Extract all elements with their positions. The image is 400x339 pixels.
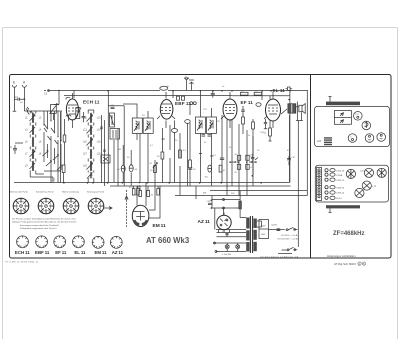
chassis box bottom xyxy=(315,165,388,202)
svg-text:Änderungen vorbehalten: Änderungen vorbehalten xyxy=(327,254,356,258)
trimmer G xyxy=(360,168,374,177)
switch wiper arrows xyxy=(43,151,63,171)
socket EBF11 xyxy=(36,236,48,248)
svg-text:Gl 110/125V ~= 2x A: Gl 110/125V ~= 2x A xyxy=(278,237,299,240)
resistor 47 xyxy=(219,165,226,172)
wire to tuning cap xyxy=(54,91,60,105)
resistor ECH11 cathode xyxy=(58,165,65,183)
resistor EF anode xyxy=(242,114,245,134)
adjuster row 3 xyxy=(325,178,345,182)
wire osc column links xyxy=(88,110,94,183)
wire ground rail xyxy=(14,115,308,196)
svg-text:C34/L16: C34/L16 xyxy=(336,187,345,189)
dial lamp 1 xyxy=(225,243,229,252)
trimmer I xyxy=(362,181,377,190)
wire tick xyxy=(162,138,165,140)
speaker xyxy=(296,104,305,114)
svg-text:C31/L18: C31/L18 xyxy=(336,170,345,172)
IF transformer 1a xyxy=(132,118,142,133)
capacitor 100 xyxy=(111,105,115,109)
scattered value labels xyxy=(118,86,291,159)
wire filament bus xyxy=(214,230,247,252)
svg-text:1n: 1n xyxy=(248,135,250,137)
antenna coil unit 5 xyxy=(25,161,35,172)
resistor pair under rail xyxy=(129,186,139,195)
switch mains xyxy=(286,227,298,230)
switch contacts on bus xyxy=(27,111,61,140)
capacitor Zu xyxy=(286,87,293,90)
band switch wafer contacts xyxy=(44,124,61,183)
svg-text:Fz 0,5M 11 47/93 5054 11: Fz 0,5M 11 47/93 5054 11 xyxy=(6,261,39,263)
capacitor electrolytic 40b xyxy=(205,165,212,178)
socket AZ11 xyxy=(110,236,122,248)
resistor chain right lower xyxy=(246,164,254,169)
resistor EL grid xyxy=(252,119,255,137)
fuse oval xyxy=(160,86,168,90)
potentiometer wiper xyxy=(150,162,158,168)
svg-text:10 10: 10 10 xyxy=(129,187,135,189)
wire EBF drops xyxy=(170,103,190,196)
wire vertical feeds xyxy=(108,91,124,187)
wire mains xyxy=(257,221,262,227)
terminal block voltage selector xyxy=(259,220,269,239)
wire B+ secondary rail xyxy=(232,95,290,97)
junction xyxy=(58,90,60,92)
wire IF1 links xyxy=(123,104,148,183)
capacitor electrolytic 0,4 xyxy=(129,165,138,172)
resistor chain left upper xyxy=(235,154,241,161)
diode plates EBF11 xyxy=(190,102,193,105)
socket diagram 4 xyxy=(88,198,104,214)
svg-text:ECH 11: ECH 11 xyxy=(83,99,100,104)
wire transformer top xyxy=(240,217,246,219)
svg-text:C33/L12: C33/L12 xyxy=(336,180,345,182)
wire HT rail xyxy=(196,186,240,230)
capacitor at ECH11 xyxy=(66,112,86,122)
resistor decoupling b xyxy=(254,91,262,96)
dial scale bar top xyxy=(326,97,360,106)
wire coil column links xyxy=(30,111,36,177)
svg-text:AT Rgt Sch 660/3: AT Rgt Sch 660/3 xyxy=(334,262,356,266)
trimmer H xyxy=(377,168,386,177)
antenna coil unit 2 xyxy=(25,125,42,136)
node A xyxy=(22,81,26,111)
svg-text:EF 11: EF 11 xyxy=(241,100,254,105)
wire T bars xyxy=(199,154,213,157)
svg-text:Kontakt blau Punkt: Kontakt blau Punkt xyxy=(36,191,54,194)
resistor bleeder xyxy=(239,191,242,218)
adjuster row 5 xyxy=(325,191,345,195)
adjuster row 2 xyxy=(325,173,343,177)
node C3 terminal xyxy=(44,90,49,96)
svg-text:C35/L14: C35/L14 xyxy=(336,193,345,195)
antenna coil unit 3 xyxy=(25,137,42,148)
junction dots on rail xyxy=(107,90,291,92)
resistor at ECH11 grid xyxy=(61,112,66,183)
band indicator box xyxy=(334,111,351,125)
contact dots xyxy=(43,120,61,141)
wire top rail xyxy=(48,90,308,92)
adjuster row 4 xyxy=(325,186,345,190)
svg-text:1M: 1M xyxy=(118,149,121,151)
resistor EL cathode 50 xyxy=(264,128,272,141)
coil L23 block xyxy=(317,137,332,145)
terminal strip xyxy=(317,168,322,201)
junction dot cluster xyxy=(200,90,223,92)
trimmer J xyxy=(355,188,364,197)
oscillator coil unit 6 xyxy=(87,172,93,179)
tube EL11 xyxy=(264,92,281,128)
coil unit 2 xyxy=(110,129,120,140)
svg-text:farbigen Punkt gekennzeichnete: farbigen Punkt gekennzeichneten Anschlüs… xyxy=(12,221,77,224)
power transformer xyxy=(246,216,257,253)
capacitor electrolytic 40 xyxy=(117,165,125,172)
wire drops to rail xyxy=(123,145,155,191)
wire B+ right edge xyxy=(306,91,308,196)
dial lamp 2 xyxy=(236,243,240,252)
capacitor tone xyxy=(287,156,296,165)
svg-text:EBF 11: EBF 11 xyxy=(35,250,50,255)
resistor EBF screen xyxy=(157,128,164,183)
svg-text:L 2x0,2A: L 2x0,2A xyxy=(222,253,231,256)
trimmer d xyxy=(365,134,374,143)
wire band switch bus xyxy=(24,107,62,111)
svg-text:S/L10: S/L10 xyxy=(336,198,342,200)
svg-text:C15: C15 xyxy=(51,180,56,182)
capacitor coupling EF-EL xyxy=(241,106,245,115)
panel divider xyxy=(310,75,312,259)
svg-text:AZ 11: AZ 11 xyxy=(112,250,124,255)
wire screen feed xyxy=(64,94,232,96)
svg-text:C32/A: C32/A xyxy=(336,174,343,177)
capacitor screen b xyxy=(182,96,185,100)
capacitor screen a xyxy=(177,96,180,100)
resistor chain left lower xyxy=(235,164,241,174)
adjuster row 6 xyxy=(325,196,343,200)
output transformer xyxy=(288,91,296,183)
socket EF11 xyxy=(54,236,66,248)
capacitor 50 xyxy=(9,143,23,154)
paragraph text xyxy=(12,218,77,231)
socket diagram 1 xyxy=(13,198,29,214)
IF transformer 2b xyxy=(206,117,216,133)
oscillator coil unit 2 xyxy=(83,125,101,136)
oscillator coil unit 4 xyxy=(83,149,101,160)
resistor chain right upper xyxy=(246,155,254,160)
trimmer c xyxy=(348,134,357,143)
svg-text:kleinste oder Punkt: kleinste oder Punkt xyxy=(10,191,28,194)
tuning capacitor C4 xyxy=(50,103,59,120)
capacitor 50u xyxy=(188,168,196,171)
node E xyxy=(12,81,16,112)
socket labels xyxy=(15,250,124,255)
wire detector to EM xyxy=(139,134,141,183)
node anode terminals xyxy=(223,199,225,201)
wire EF drops xyxy=(222,115,253,196)
svg-text:Die Punkte auf dem Sockelbild: Die Punkte auf dem Sockelbild sind die M… xyxy=(12,218,77,221)
capacitor right tap xyxy=(246,161,257,163)
socket diagram 3 xyxy=(63,198,79,214)
svg-text:Fassungen entsprechend der Pun: Fassungen entsprechend der Punktzahl xyxy=(20,224,59,227)
svg-text:Stützpunkte angeordnet sind. K: Stützpunkte angeordnet sind. Kurve 2 xyxy=(20,227,57,230)
wire coil bottom xyxy=(30,171,61,183)
wire IF2 links xyxy=(173,91,211,187)
svg-text:ZF=468kHz: ZF=468kHz xyxy=(333,231,365,237)
svg-text:ECH 11: ECH 11 xyxy=(15,250,30,255)
svg-text:AT 660 Wk3: AT 660 Wk3 xyxy=(146,236,190,245)
svg-text:110V: 110V xyxy=(261,234,266,236)
socket EM11 xyxy=(92,236,104,248)
capacitor C1 antenna coupling xyxy=(14,96,25,104)
capacitor C54 xyxy=(222,231,229,237)
capacitor EL cathode xyxy=(264,123,267,129)
resistor det load xyxy=(189,160,192,186)
antenna Ta symbol xyxy=(184,77,194,91)
capacitor left tap xyxy=(229,161,239,163)
svg-text:Br 220V~ = 5x A: Br 220V~ = 5x A xyxy=(281,234,297,237)
capacitor C52 xyxy=(207,201,213,205)
chassis box top xyxy=(315,106,390,146)
resistor under rail b xyxy=(157,186,160,195)
oval cap xyxy=(256,103,261,107)
resistor EM b xyxy=(147,191,154,197)
svg-text:AZ 11: AZ 11 xyxy=(198,219,211,225)
wire osc right verticals xyxy=(102,115,105,186)
antenna coil unit 1 xyxy=(25,113,42,124)
capacitor detector xyxy=(185,120,191,186)
resistor AVC xyxy=(179,150,182,158)
trimmer F xyxy=(346,169,355,178)
capacitor osc pad xyxy=(100,127,106,151)
dashed tuning pointer xyxy=(126,190,128,227)
capacitor EBF cath xyxy=(172,121,178,183)
IF transformer 1b xyxy=(143,118,153,133)
tube AZ11 xyxy=(217,212,231,232)
svg-text:220V: 220V xyxy=(261,226,266,228)
wire speaker lines xyxy=(296,102,303,248)
resistor decoupling a xyxy=(241,91,249,96)
svg-text:L23: L23 xyxy=(317,140,322,143)
resistor 50 xyxy=(150,166,156,173)
IF transformer 2a xyxy=(195,117,205,133)
tube EM11 magic eye xyxy=(132,205,149,226)
resistor EM a xyxy=(135,191,142,197)
capacitor EF cathode xyxy=(220,158,224,159)
svg-text:Röhrenanordnung: Röhrenanordnung xyxy=(62,191,80,194)
socket EL11 xyxy=(73,236,85,248)
fuse mains xyxy=(269,228,285,231)
arrow marks xyxy=(104,196,128,210)
tube ECH11 xyxy=(66,93,78,128)
svg-text:EL 11: EL 11 xyxy=(273,88,286,93)
coil unit xyxy=(110,113,115,127)
socket diagram 2 xyxy=(38,198,54,214)
svg-text:Sockel-grau Punkt: Sockel-grau Punkt xyxy=(87,191,104,194)
trimmer S xyxy=(362,121,371,130)
oscillator coil unit 1 xyxy=(83,113,101,124)
junction dots ground rail xyxy=(63,182,262,184)
svg-text:EM 11: EM 11 xyxy=(153,223,167,229)
node terminals xyxy=(214,242,216,244)
socket ECH11 xyxy=(17,236,29,248)
dial scale bar bottom xyxy=(326,205,360,212)
switch secondary xyxy=(278,247,297,253)
resistor volume box xyxy=(101,155,110,163)
wire ECH11 anode xyxy=(73,91,75,99)
wire EL drops xyxy=(262,91,287,129)
svg-text:E: E xyxy=(13,81,15,85)
schematic frame xyxy=(10,75,392,259)
wire EM11 feeds xyxy=(137,183,160,219)
adjuster row 1 xyxy=(325,169,345,173)
svg-text:2n: 2n xyxy=(222,86,224,88)
tube EF11 xyxy=(221,92,237,128)
svg-text:EBF 11: EBF 11 xyxy=(175,101,191,106)
antenna coil unit 4 xyxy=(25,149,42,160)
svg-text:≈220V: ≈220V xyxy=(271,223,278,226)
oscillator coil unit 3 xyxy=(83,137,101,148)
capacitor on rail xyxy=(211,91,215,98)
oscillator coil unit 5 xyxy=(83,161,93,172)
svg-text:4W: 4W xyxy=(203,193,206,195)
trimmer C17 xyxy=(354,112,363,121)
caption row xyxy=(10,191,104,194)
wire screen drop xyxy=(252,136,254,175)
svg-text:EL 11: EL 11 xyxy=(74,250,86,255)
tuning capacitor C5 xyxy=(75,108,81,120)
capacitor C47 cluster xyxy=(249,154,258,162)
svg-text:EF 11: EF 11 xyxy=(55,250,67,255)
svg-text:bei Umschaltung auf Allstrom u: bei Umschaltung auf Allstrom und xyxy=(261,255,299,258)
svg-text:EM 11: EM 11 xyxy=(94,250,107,255)
trimmer e xyxy=(377,133,386,142)
capacitor IF2 base xyxy=(202,135,212,136)
tube EBF11 xyxy=(157,92,175,128)
